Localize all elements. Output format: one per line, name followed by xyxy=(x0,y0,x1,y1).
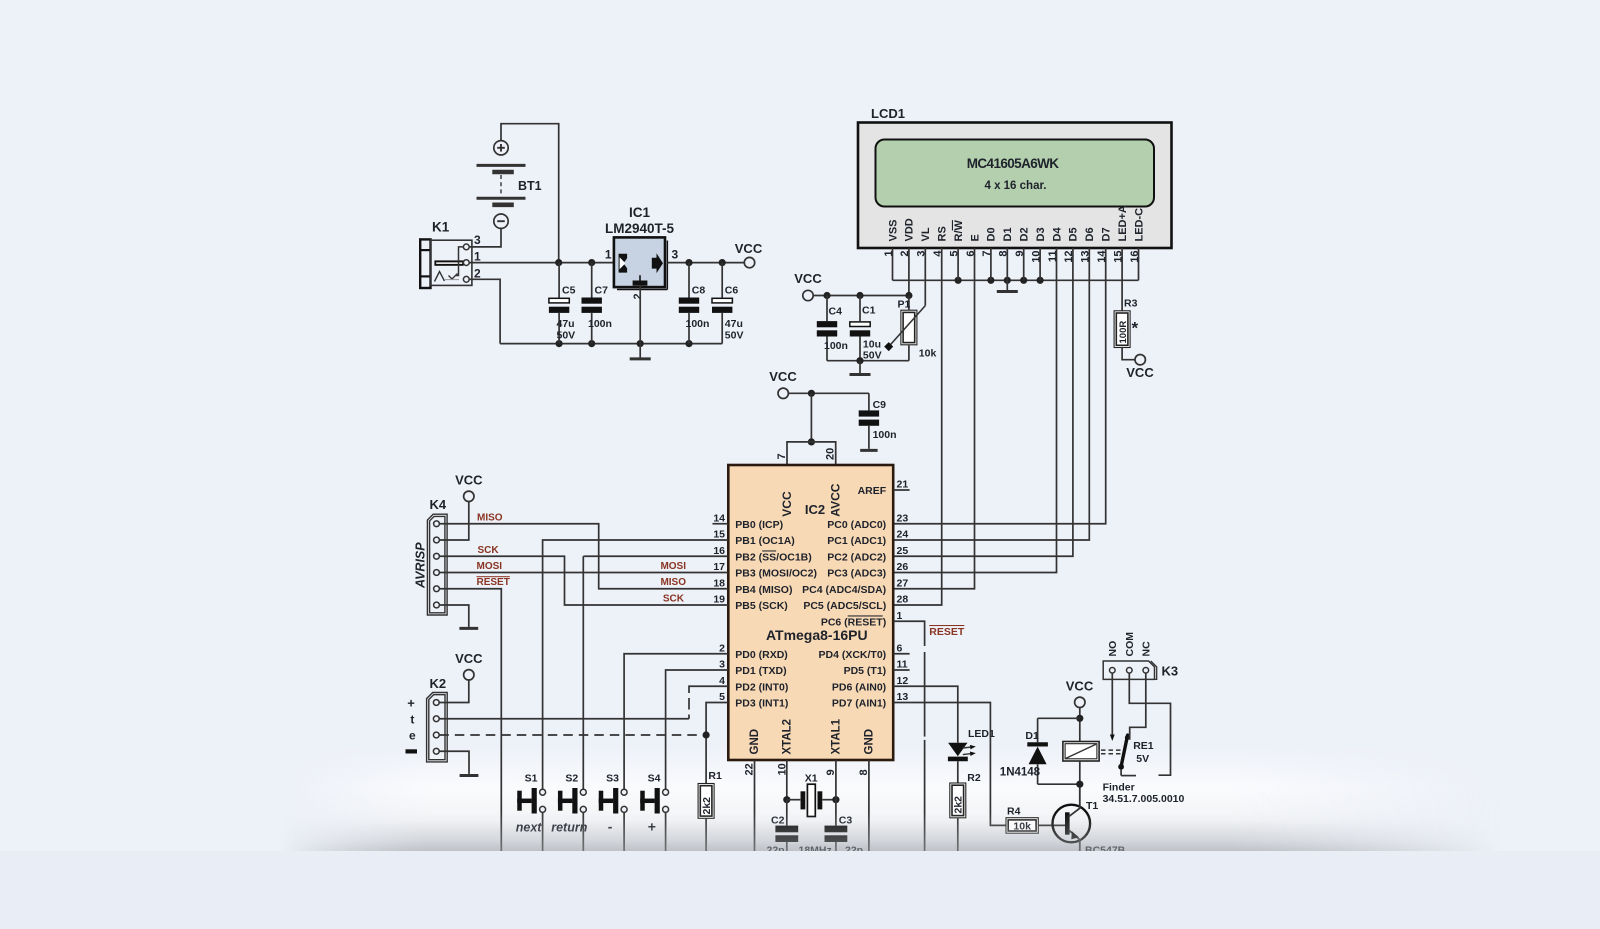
svg-text:17: 17 xyxy=(713,561,725,573)
svg-text:PB3 (MOSI/OC2): PB3 (MOSI/OC2) xyxy=(735,568,817,580)
svg-text:D5: D5 xyxy=(1068,227,1080,241)
svg-text:XTAL2: XTAL2 xyxy=(782,719,794,755)
wire S3 bottom xyxy=(623,812,625,851)
resistor R4 xyxy=(1006,818,1038,834)
svg-text:5V: 5V xyxy=(1136,753,1149,765)
svg-text:D4: D4 xyxy=(1051,227,1063,242)
wire LCD pin13 D6 to IC2 PC1 xyxy=(893,248,1089,540)
svg-text:PC2 (ADC2): PC2 (ADC2) xyxy=(827,551,886,563)
wire BT1 plus to input rail xyxy=(501,124,559,263)
resistor R1 xyxy=(698,784,714,819)
svg-text:50V: 50V xyxy=(557,330,576,342)
svg-text:50V: 50V xyxy=(863,350,882,362)
svg-text:PC1 (ADC1): PC1 (ADC1) xyxy=(827,535,886,547)
IC2 pin 11 stub xyxy=(893,669,909,671)
svg-text:X1: X1 xyxy=(805,773,818,785)
svg-text:26: 26 xyxy=(897,561,909,573)
svg-text:VCC: VCC xyxy=(735,241,763,256)
capacitor C7 xyxy=(591,263,593,298)
terminal VCC above IC2 xyxy=(778,388,788,398)
svg-text:4: 4 xyxy=(719,675,725,687)
terminal VCC at K2 xyxy=(464,670,474,680)
capacitor C8 xyxy=(688,263,690,298)
wire LCD pin2 VDD down xyxy=(908,248,910,296)
svg-text:PC0 (ADC0): PC0 (ADC0) xyxy=(827,519,886,531)
switch S3 xyxy=(599,791,604,811)
wire S1 bottom xyxy=(542,812,544,851)
svg-text:MOSI: MOSI xyxy=(477,561,503,572)
svg-text:RE1: RE1 xyxy=(1133,740,1154,752)
svg-text:C5: C5 xyxy=(562,285,576,297)
svg-text:14: 14 xyxy=(713,512,725,524)
wire S4 to IC2 PD1 xyxy=(666,670,729,789)
svg-text:PD4 (XCK/T0): PD4 (XCK/T0) xyxy=(819,649,887,661)
svg-text:1: 1 xyxy=(605,248,612,262)
svg-text:XTAL1: XTAL1 xyxy=(831,718,843,754)
wire VCC to relay coil xyxy=(1079,708,1081,742)
svg-text:PD1 (TXD): PD1 (TXD) xyxy=(735,665,786,677)
wire IC2 PD7 to R4 xyxy=(893,703,1006,826)
capacitor C5 xyxy=(558,263,560,298)
svg-text:RS: RS xyxy=(937,226,949,241)
wire VCC rail to P1 xyxy=(813,295,909,297)
wire S2 to IC2 PB2 xyxy=(582,556,584,789)
svg-text:19: 19 xyxy=(713,594,725,606)
wire K3 NC contact xyxy=(1130,673,1146,740)
svg-text:100n: 100n xyxy=(588,318,612,330)
svg-text:R/W: R/W xyxy=(953,220,965,242)
svg-text:VCC: VCC xyxy=(455,651,483,666)
svg-text:PB2 (SS/OC1B): PB2 (SS/OC1B) xyxy=(735,551,811,563)
wire R2 bottom xyxy=(957,818,959,851)
svg-text:16: 16 xyxy=(713,545,725,557)
svg-text:21: 21 xyxy=(897,479,909,491)
svg-text:1N4148: 1N4148 xyxy=(1000,767,1041,779)
wire K1 pin1 to IC1 input xyxy=(469,262,614,264)
capacitor C2 xyxy=(786,800,788,826)
svg-text:LCD1: LCD1 xyxy=(871,106,905,121)
svg-text:D6: D6 xyxy=(1084,227,1096,241)
crystal X1 xyxy=(801,791,806,809)
wire IC2 GND pin22 xyxy=(754,760,756,851)
wire K2 pin2 to IC2 PD2 xyxy=(439,718,689,720)
svg-text:AVCC: AVCC xyxy=(828,483,842,516)
wire IC1 ground pin xyxy=(639,286,641,344)
IC2 pin 14 stub xyxy=(713,523,729,525)
svg-text:13: 13 xyxy=(897,691,909,703)
wire ground rail left xyxy=(500,343,722,345)
wire K4 pin6 to ground xyxy=(440,605,469,627)
svg-text:MC41605A6WK: MC41605A6WK xyxy=(967,156,1060,171)
svg-text:VCC: VCC xyxy=(455,473,483,488)
svg-text:GND: GND xyxy=(749,729,761,755)
svg-text:7: 7 xyxy=(776,453,788,459)
svg-text:PC4 (ADC4/SDA): PC4 (ADC4/SDA) xyxy=(802,584,886,596)
wire R3 to VCC xyxy=(1122,348,1135,360)
LED LED1 xyxy=(948,743,967,757)
terminal VCC at R3 xyxy=(1135,355,1145,365)
svg-text:PB4 (MISO): PB4 (MISO) xyxy=(735,584,792,596)
svg-text:VDD: VDD xyxy=(904,218,916,241)
svg-text:C9: C9 xyxy=(873,399,887,411)
wire K2 pin1 to VCC xyxy=(439,680,469,702)
wire relay coil to T1 collector xyxy=(1079,761,1081,784)
svg-text:PC3 (ADC3): PC3 (ADC3) xyxy=(827,568,886,580)
svg-text:D7: D7 xyxy=(1101,227,1113,241)
wire IC2 XTAL2 to crystal xyxy=(786,760,788,800)
svg-text:MISO: MISO xyxy=(660,577,686,588)
svg-text:MISO: MISO xyxy=(477,512,503,523)
svg-text:10k: 10k xyxy=(919,348,937,360)
svg-text:PC5 (ADC5/SCL): PC5 (ADC5/SCL) xyxy=(803,600,886,612)
svg-text:VCC: VCC xyxy=(780,491,794,517)
svg-text:28: 28 xyxy=(897,594,909,606)
svg-text:K4: K4 xyxy=(430,497,447,512)
svg-text:2k2: 2k2 xyxy=(701,797,713,815)
svg-text:S3: S3 xyxy=(606,773,619,785)
voltage regulator IC1 LM2940T-5 xyxy=(614,237,665,287)
svg-text:RESET: RESET xyxy=(477,577,510,588)
svg-text:D1: D1 xyxy=(1025,730,1039,742)
svg-text:LED+A: LED+A xyxy=(1117,205,1129,241)
svg-text:D1: D1 xyxy=(1002,227,1014,241)
wire K2 pin4 to ground xyxy=(439,751,469,773)
svg-text:100n: 100n xyxy=(824,340,848,352)
capacitor C1 xyxy=(859,296,861,322)
svg-text:PD3 (INT1): PD3 (INT1) xyxy=(735,698,788,710)
wire P1 bottom rail xyxy=(827,360,909,362)
svg-text:PD7 (AIN1): PD7 (AIN1) xyxy=(832,698,886,710)
svg-text:ATmega8-16PU: ATmega8-16PU xyxy=(766,627,868,643)
svg-text:IC2: IC2 xyxy=(805,502,825,517)
diode D1 1N4148 xyxy=(1038,717,1080,719)
wire K3 COM to lever xyxy=(1129,673,1170,775)
connector K4 AVRISP xyxy=(427,514,447,615)
wire S4 bottom xyxy=(665,812,667,851)
ground C1 C4 rail xyxy=(859,361,861,375)
svg-text:PB1 (OC1A): PB1 (OC1A) xyxy=(735,535,795,547)
IC2 pin 21 AREF stub xyxy=(893,489,909,491)
svg-text:12: 12 xyxy=(897,675,909,687)
wire K3 NO contact xyxy=(1111,673,1113,734)
svg-text:NC: NC xyxy=(1141,641,1153,657)
switch S2 xyxy=(558,791,563,811)
svg-text:IC1: IC1 xyxy=(629,205,651,220)
svg-text:MOSI: MOSI xyxy=(660,561,686,572)
wire R1 bottom xyxy=(705,818,707,851)
terminal VCC output xyxy=(744,257,754,267)
svg-text:2: 2 xyxy=(719,642,725,654)
svg-text:24: 24 xyxy=(897,529,909,541)
svg-text:6: 6 xyxy=(897,642,903,654)
wire LCD pin15 to R3 xyxy=(1121,248,1123,311)
resistor R3 xyxy=(1114,311,1130,348)
svg-text:R2: R2 xyxy=(967,772,981,784)
wire LCD pin6 E to IC2 PC4 xyxy=(893,248,974,589)
svg-text:100n: 100n xyxy=(686,318,710,330)
svg-text:100n: 100n xyxy=(873,429,897,441)
wire S1 to IC2 PB1 xyxy=(543,540,729,789)
wire LCD pin12 D5 to IC2 PC2 xyxy=(893,248,1073,556)
capacitor C6 xyxy=(721,263,723,298)
svg-text:4 x 16 char.: 4 x 16 char. xyxy=(984,180,1046,192)
svg-text:*: * xyxy=(1132,319,1139,338)
svg-text:2: 2 xyxy=(632,293,644,299)
connector K3 xyxy=(1103,661,1154,679)
wire crystal to XTAL1 xyxy=(823,799,836,801)
svg-text:+: + xyxy=(407,696,415,711)
ground C9 xyxy=(868,448,870,450)
svg-text:25: 25 xyxy=(897,545,909,557)
svg-text:100R: 100R xyxy=(1118,321,1129,344)
svg-text:PB5 (SCK): PB5 (SCK) xyxy=(735,600,788,612)
svg-text:1: 1 xyxy=(474,250,481,264)
svg-text:27: 27 xyxy=(897,577,909,589)
wire R4 to T1 base xyxy=(1038,824,1065,826)
wire IC2 PD6 to LED1 xyxy=(893,686,958,743)
battery BT1 xyxy=(494,141,508,155)
switch S1 xyxy=(517,791,522,811)
wire RESET K4 pin5 down xyxy=(440,589,502,851)
wire IC2 PC6 RESET down xyxy=(893,621,924,646)
svg-text:2: 2 xyxy=(474,267,481,281)
svg-text:C1: C1 xyxy=(862,305,876,317)
wire IC1 output to VCC xyxy=(667,262,744,264)
svg-text:C4: C4 xyxy=(829,306,843,318)
svg-text:47u: 47u xyxy=(725,318,743,330)
svg-text:5: 5 xyxy=(719,691,725,703)
microcontroller IC2 ATmega8-16PU body xyxy=(728,465,893,760)
terminal VCC at K4 xyxy=(464,491,474,501)
svg-text:8: 8 xyxy=(858,769,870,775)
svg-text:PC6 (RESET): PC6 (RESET) xyxy=(821,616,886,628)
svg-text:PD2 (INT0): PD2 (INT0) xyxy=(735,681,788,693)
wire LCD ground bus xyxy=(893,279,1139,281)
relay RE1 contact lever xyxy=(1121,735,1128,766)
bottom page area xyxy=(0,851,1600,929)
capacitor C4 xyxy=(826,296,828,322)
ground IC1 xyxy=(639,344,641,359)
wire S3 to IC2 PD0 xyxy=(624,654,728,789)
potentiometer P1 xyxy=(908,296,910,311)
svg-text:VCC: VCC xyxy=(1126,365,1154,380)
wire K1 pin2 to ground rail xyxy=(469,279,500,343)
svg-text:S2: S2 xyxy=(565,773,578,785)
wire LCD pin11 D4 to IC2 PC3 xyxy=(893,248,1056,573)
svg-text:VCC: VCC xyxy=(769,369,797,384)
svg-text:11: 11 xyxy=(897,659,908,671)
capacitor C9 xyxy=(868,393,870,410)
connector K1 xyxy=(420,239,430,288)
svg-text:20: 20 xyxy=(825,448,837,460)
svg-text:K1: K1 xyxy=(432,220,450,235)
terminal VCC at relay xyxy=(1075,697,1085,707)
svg-text:S1: S1 xyxy=(525,773,538,785)
transistor T1 xyxy=(1053,805,1091,843)
svg-text:LED-C: LED-C xyxy=(1133,208,1145,242)
capacitor C3 xyxy=(835,800,837,826)
svg-text:50V: 50V xyxy=(725,330,744,342)
svg-text:D3: D3 xyxy=(1035,227,1047,241)
svg-text:VL: VL xyxy=(920,227,932,241)
svg-text:S4: S4 xyxy=(648,773,661,785)
wire LCD pin4 RS to IC2 PC5 xyxy=(893,248,942,605)
svg-text:R1: R1 xyxy=(708,770,722,782)
svg-text:VSS: VSS xyxy=(887,219,899,241)
wire LCD pin3 VL to P1 wiper xyxy=(924,248,926,306)
svg-text:D0: D0 xyxy=(986,227,998,241)
svg-text:E: E xyxy=(969,234,981,241)
svg-text:VCC: VCC xyxy=(1066,679,1094,694)
svg-text:AVRISP: AVRISP xyxy=(414,542,428,589)
svg-text:3: 3 xyxy=(719,659,725,671)
switch S4 xyxy=(640,791,645,811)
terminal VCC at P1 rail xyxy=(803,290,813,300)
wire BT1 minus to K1 pin3 xyxy=(469,228,501,247)
svg-text:3: 3 xyxy=(474,233,481,247)
svg-text:PD5 (T1): PD5 (T1) xyxy=(844,665,887,677)
relay RE1 coil xyxy=(1063,742,1099,762)
svg-text:SCK: SCK xyxy=(478,545,500,556)
svg-text:K3: K3 xyxy=(1162,663,1179,678)
svg-text:PD0 (RXD): PD0 (RXD) xyxy=(735,649,788,661)
svg-text:AREF: AREF xyxy=(858,485,887,497)
svg-text:PB0 (ICP): PB0 (ICP) xyxy=(735,519,783,531)
wire IC2 GND pin8 xyxy=(868,760,870,851)
wire SCK K4 pin3 to IC2 PB5 xyxy=(440,556,729,605)
svg-text:COM: COM xyxy=(1124,632,1136,657)
svg-text:NO: NO xyxy=(1107,641,1119,657)
svg-text:34.51.7.005.0010: 34.51.7.005.0010 xyxy=(1103,793,1185,805)
svg-text:T1: T1 xyxy=(1086,800,1098,812)
svg-text:P1: P1 xyxy=(898,299,911,311)
wire MOSI K4 pin4 to IC2 PB3 xyxy=(440,572,729,574)
svg-text:t: t xyxy=(410,713,414,727)
svg-text:18: 18 xyxy=(713,577,725,589)
svg-text:3: 3 xyxy=(672,248,679,262)
IC2 pin 6 stub xyxy=(893,653,909,655)
ground K4 xyxy=(468,627,470,629)
ground LCD bus xyxy=(1006,280,1008,291)
svg-text:D2: D2 xyxy=(1019,227,1031,241)
svg-text:GND: GND xyxy=(864,729,876,755)
svg-text:C8: C8 xyxy=(692,285,706,297)
svg-text:23: 23 xyxy=(897,512,909,524)
wire MISO K4 pin1 to IC2 PB4 xyxy=(440,524,729,589)
wire LCD pin14 D7 to IC2 PC0 xyxy=(893,248,1105,524)
wire IC2 PD3 to R1 xyxy=(706,703,728,784)
svg-text:RESET: RESET xyxy=(929,626,965,638)
svg-text:Finder: Finder xyxy=(1103,781,1135,793)
page fade overlay xyxy=(280,812,1500,851)
svg-text:e: e xyxy=(409,729,416,743)
svg-text:47u: 47u xyxy=(557,318,575,330)
svg-text:K2: K2 xyxy=(430,676,447,691)
wire VCC to IC2 supply pins xyxy=(789,392,869,394)
svg-text:BT1: BT1 xyxy=(518,179,542,193)
svg-text:2k2: 2k2 xyxy=(953,796,965,814)
relay RE1 mechanical link xyxy=(1101,749,1122,751)
wire K2 pin3 dashed to PD3 node xyxy=(439,734,702,736)
svg-text:15: 15 xyxy=(713,529,725,541)
svg-text:R3: R3 xyxy=(1124,298,1138,310)
svg-text:C6: C6 xyxy=(725,285,739,297)
resistor R2 xyxy=(950,783,966,818)
wire S2 bottom xyxy=(582,812,584,851)
svg-text:VCC: VCC xyxy=(794,271,822,286)
svg-text:SCK: SCK xyxy=(663,594,685,605)
svg-text:C7: C7 xyxy=(595,285,609,297)
svg-text:1: 1 xyxy=(897,610,903,622)
svg-text:22: 22 xyxy=(743,763,755,775)
wire K4 pin2 to VCC xyxy=(440,502,469,540)
svg-text:PD6 (AIN0): PD6 (AIN0) xyxy=(832,681,886,693)
ground K2 xyxy=(468,774,470,776)
svg-text:LM2940T-5: LM2940T-5 xyxy=(605,221,675,236)
connector K2 xyxy=(427,693,448,762)
